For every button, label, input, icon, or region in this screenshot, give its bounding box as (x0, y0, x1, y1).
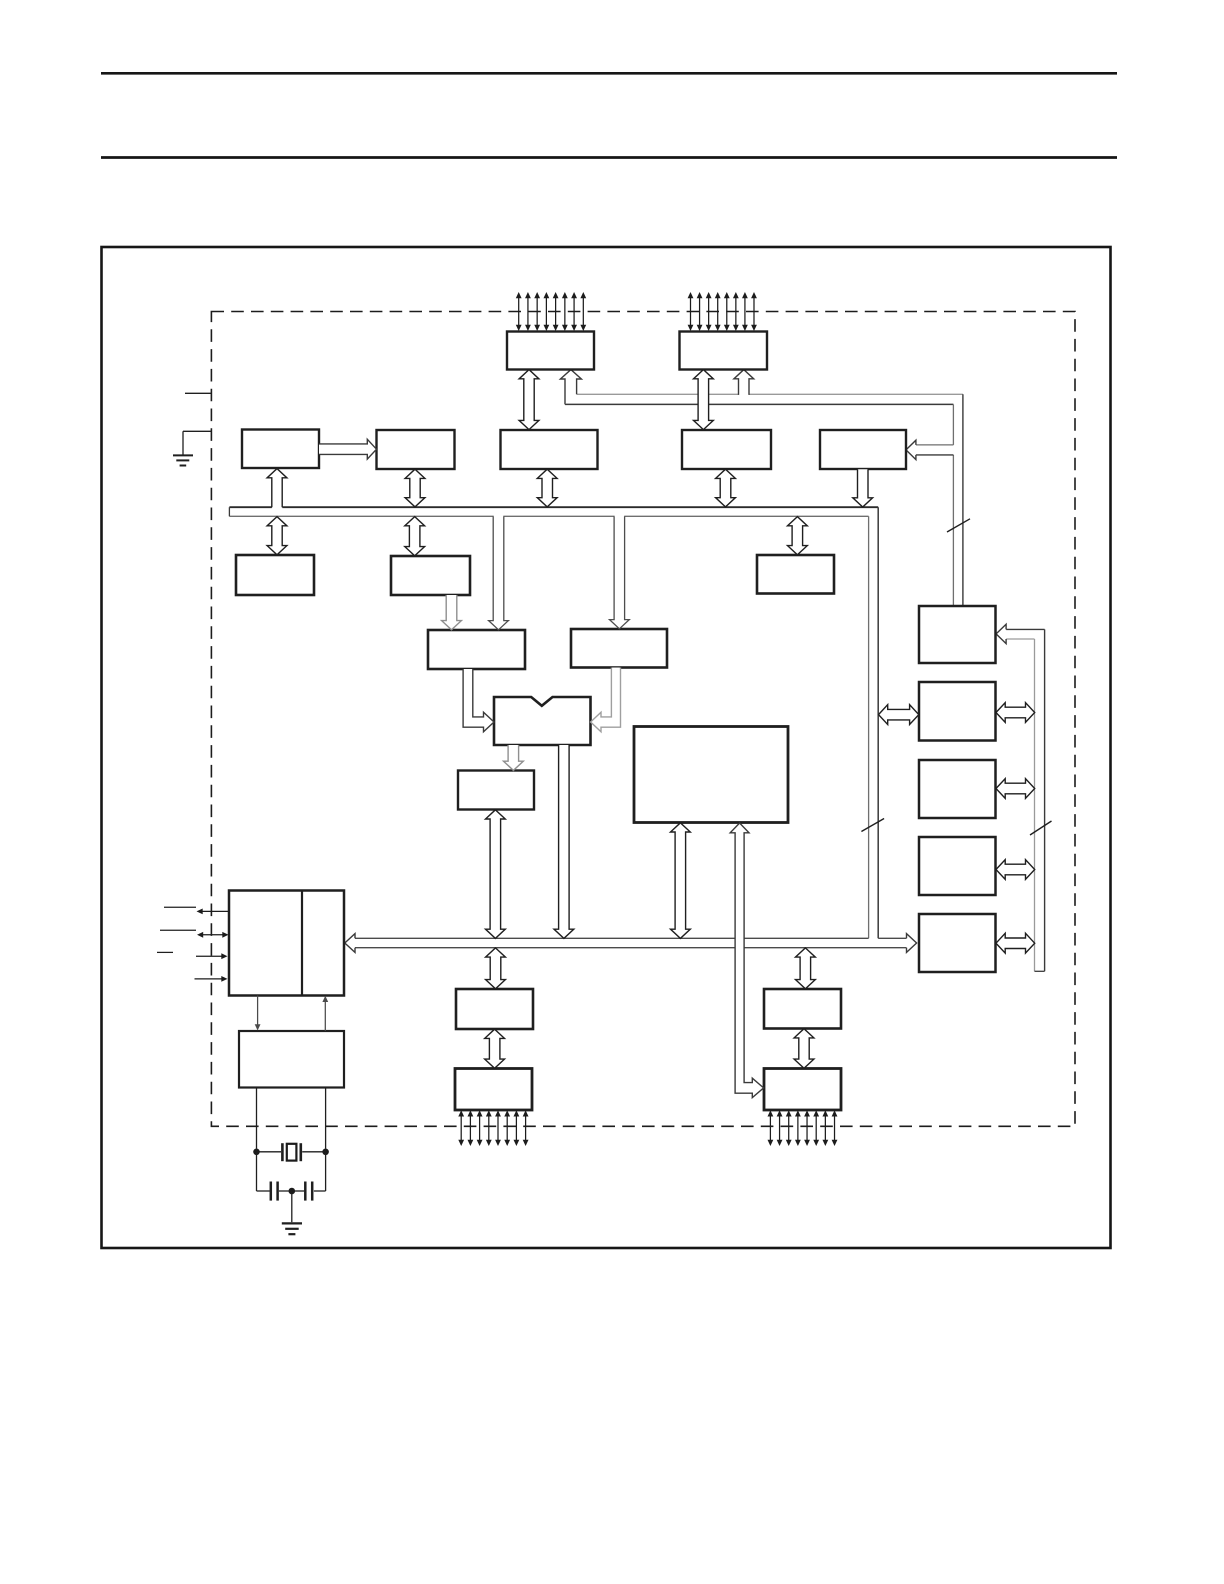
block oscillator (239, 1031, 344, 1088)
ground symbol (VSS) (173, 454, 193, 456)
arrow TMP2 into ALU (463, 669, 494, 732)
arrow right column into buffer (1006, 628, 1045, 630)
block port 2 drivers (680, 332, 768, 370)
bus right column outer edge (1044, 629, 1046, 971)
figure outer border (102, 247, 1111, 1248)
bus main (lower) top edge (355, 937, 735, 939)
arrow port 1 latch / drivers (485, 1029, 505, 1068)
bus drop to lower bus inner edge (868, 516, 870, 938)
arrow bus to program address register (788, 517, 808, 555)
arrow bus down to TMP1 (610, 516, 630, 629)
block PC incrementer (919, 682, 996, 741)
arrow program counter / column (996, 779, 1035, 799)
ground symbol (crystal) (282, 1222, 302, 1224)
arrow timing to oscillator (257, 996, 259, 1026)
bus width slash (right column) (1030, 821, 1052, 835)
wire XTAL2 (325, 1088, 327, 1149)
node XTAL1 (253, 1149, 260, 1156)
capacitor C2 (304, 1182, 307, 1201)
block port 1 latch (456, 989, 533, 1029)
arrow bus to stack pointer (405, 517, 425, 556)
arrow port2 drivers / port2 latch (694, 370, 714, 430)
block program address register (757, 555, 834, 594)
pin ALE/PROG (160, 929, 196, 931)
arrow bus / PC incrementer (left) (879, 705, 919, 725)
pins port 0 (8 lines) (518, 297, 520, 326)
arrowhead into program memory (906, 440, 916, 459)
arrow TMP1 into ALU (591, 668, 621, 732)
block interrupt serial and timer blocks (634, 727, 788, 823)
arrow data pointer / column (996, 860, 1035, 880)
arrowhead lower bus into DPTR (907, 934, 917, 953)
block PSW (458, 771, 534, 810)
bus right column inner edge (1034, 639, 1036, 971)
wire port bus right drop outer edge (962, 394, 964, 606)
page header rule 1 (101, 72, 1117, 75)
arrow interrupt block to port 3 drivers (730, 823, 763, 1098)
block register B (236, 555, 314, 595)
block port 2 latch (682, 430, 771, 469)
capacitor C1 (270, 1182, 273, 1201)
node XTAL2 (322, 1149, 329, 1156)
bus main (lower) bottom edge (355, 947, 735, 949)
arrow oscillator to timing (324, 1001, 326, 1031)
wire to ground (291, 1191, 293, 1222)
arrow ALU down to PSW (504, 745, 524, 770)
wire crystal to caps left (256, 1152, 258, 1191)
arrow bus down to TMP2 (489, 516, 509, 630)
block port 0 latch (501, 430, 598, 469)
node ground junction (289, 1188, 296, 1195)
block RAM (377, 430, 455, 469)
bus main (upper) bottom edge (229, 515, 493, 517)
block data pointer high (919, 837, 996, 895)
arrow bus to port 2 drivers (734, 370, 754, 395)
pin PSEN (164, 906, 196, 908)
arrow bus to register B (267, 517, 287, 555)
arrow ALU down to bus (554, 745, 574, 938)
arrow bus to port 1 latch (486, 948, 506, 989)
divider timing and control (301, 891, 303, 996)
block buffer (919, 606, 996, 663)
block port 1 drivers (455, 1069, 532, 1111)
pins port 1 (8 lines) (460, 1116, 462, 1141)
pin EA/VPP (157, 951, 173, 953)
wire XTAL1 (256, 1088, 258, 1149)
block port 3 drivers (764, 1069, 841, 1111)
arrow RAM address register to RAM (319, 439, 377, 459)
wire port bus right drop inner edge (952, 404, 954, 445)
wire caps to node (279, 1190, 292, 1192)
block port 0 drivers (507, 332, 594, 370)
VSS pin stub (183, 430, 211, 432)
page header rule 2 (101, 156, 1117, 159)
pin RST (195, 978, 223, 980)
block TMP1 (571, 629, 667, 668)
arrow program memory to bus (853, 469, 873, 507)
block RAM address register (242, 430, 319, 469)
crystal Y1 (281, 1143, 284, 1161)
bus width slash (mid drop) (861, 819, 884, 832)
arrow bus to port 0 drivers (560, 370, 581, 405)
bus main (upper) top edge (229, 506, 272, 508)
arrow RAM to bus (405, 469, 425, 507)
arrow PSW to bus (486, 810, 506, 939)
arrow port0 drivers / port0 latch (519, 370, 539, 430)
arrow port2 latch to bus (716, 469, 736, 507)
wire port bus bottom edge (565, 403, 698, 405)
bus drop to lower bus outer edge (877, 507, 879, 938)
block program counter (919, 760, 996, 818)
block stack pointer (391, 556, 470, 595)
wire branch to program memory (916, 444, 954, 446)
bus width slash (PC drop) (947, 519, 970, 532)
arrow interrupt block to bus (671, 823, 691, 939)
arrow bus to port 3 latch (796, 948, 816, 989)
VCC pin stub (185, 392, 211, 394)
block program memory (820, 430, 906, 469)
arrow PC incrementer / column (996, 703, 1035, 723)
block timing and control (229, 891, 344, 996)
wire crystal to caps right (325, 1152, 327, 1191)
block TMP2 (428, 630, 525, 669)
arrow DPTR / column (996, 933, 1035, 953)
arrowhead lower bus into timing block (345, 934, 355, 953)
arrow stack pointer down to TMP2 (442, 595, 462, 630)
block port 3 latch (764, 989, 841, 1029)
arrow port 3 latch / drivers (794, 1029, 814, 1069)
chip boundary (dashed) (211, 312, 1075, 1127)
pins port 2 (8 lines) (690, 297, 692, 326)
bus main (upper) left cap (228, 507, 230, 516)
block ALU (494, 697, 591, 745)
arrow port0 latch to bus (537, 469, 557, 507)
arrow RAM address register to bus (267, 469, 287, 508)
bus right column bottom cap (1035, 970, 1045, 972)
wire port bus top edge (577, 393, 699, 395)
block DPTR (919, 914, 996, 972)
pins port 3 (8 lines) (769, 1116, 771, 1141)
